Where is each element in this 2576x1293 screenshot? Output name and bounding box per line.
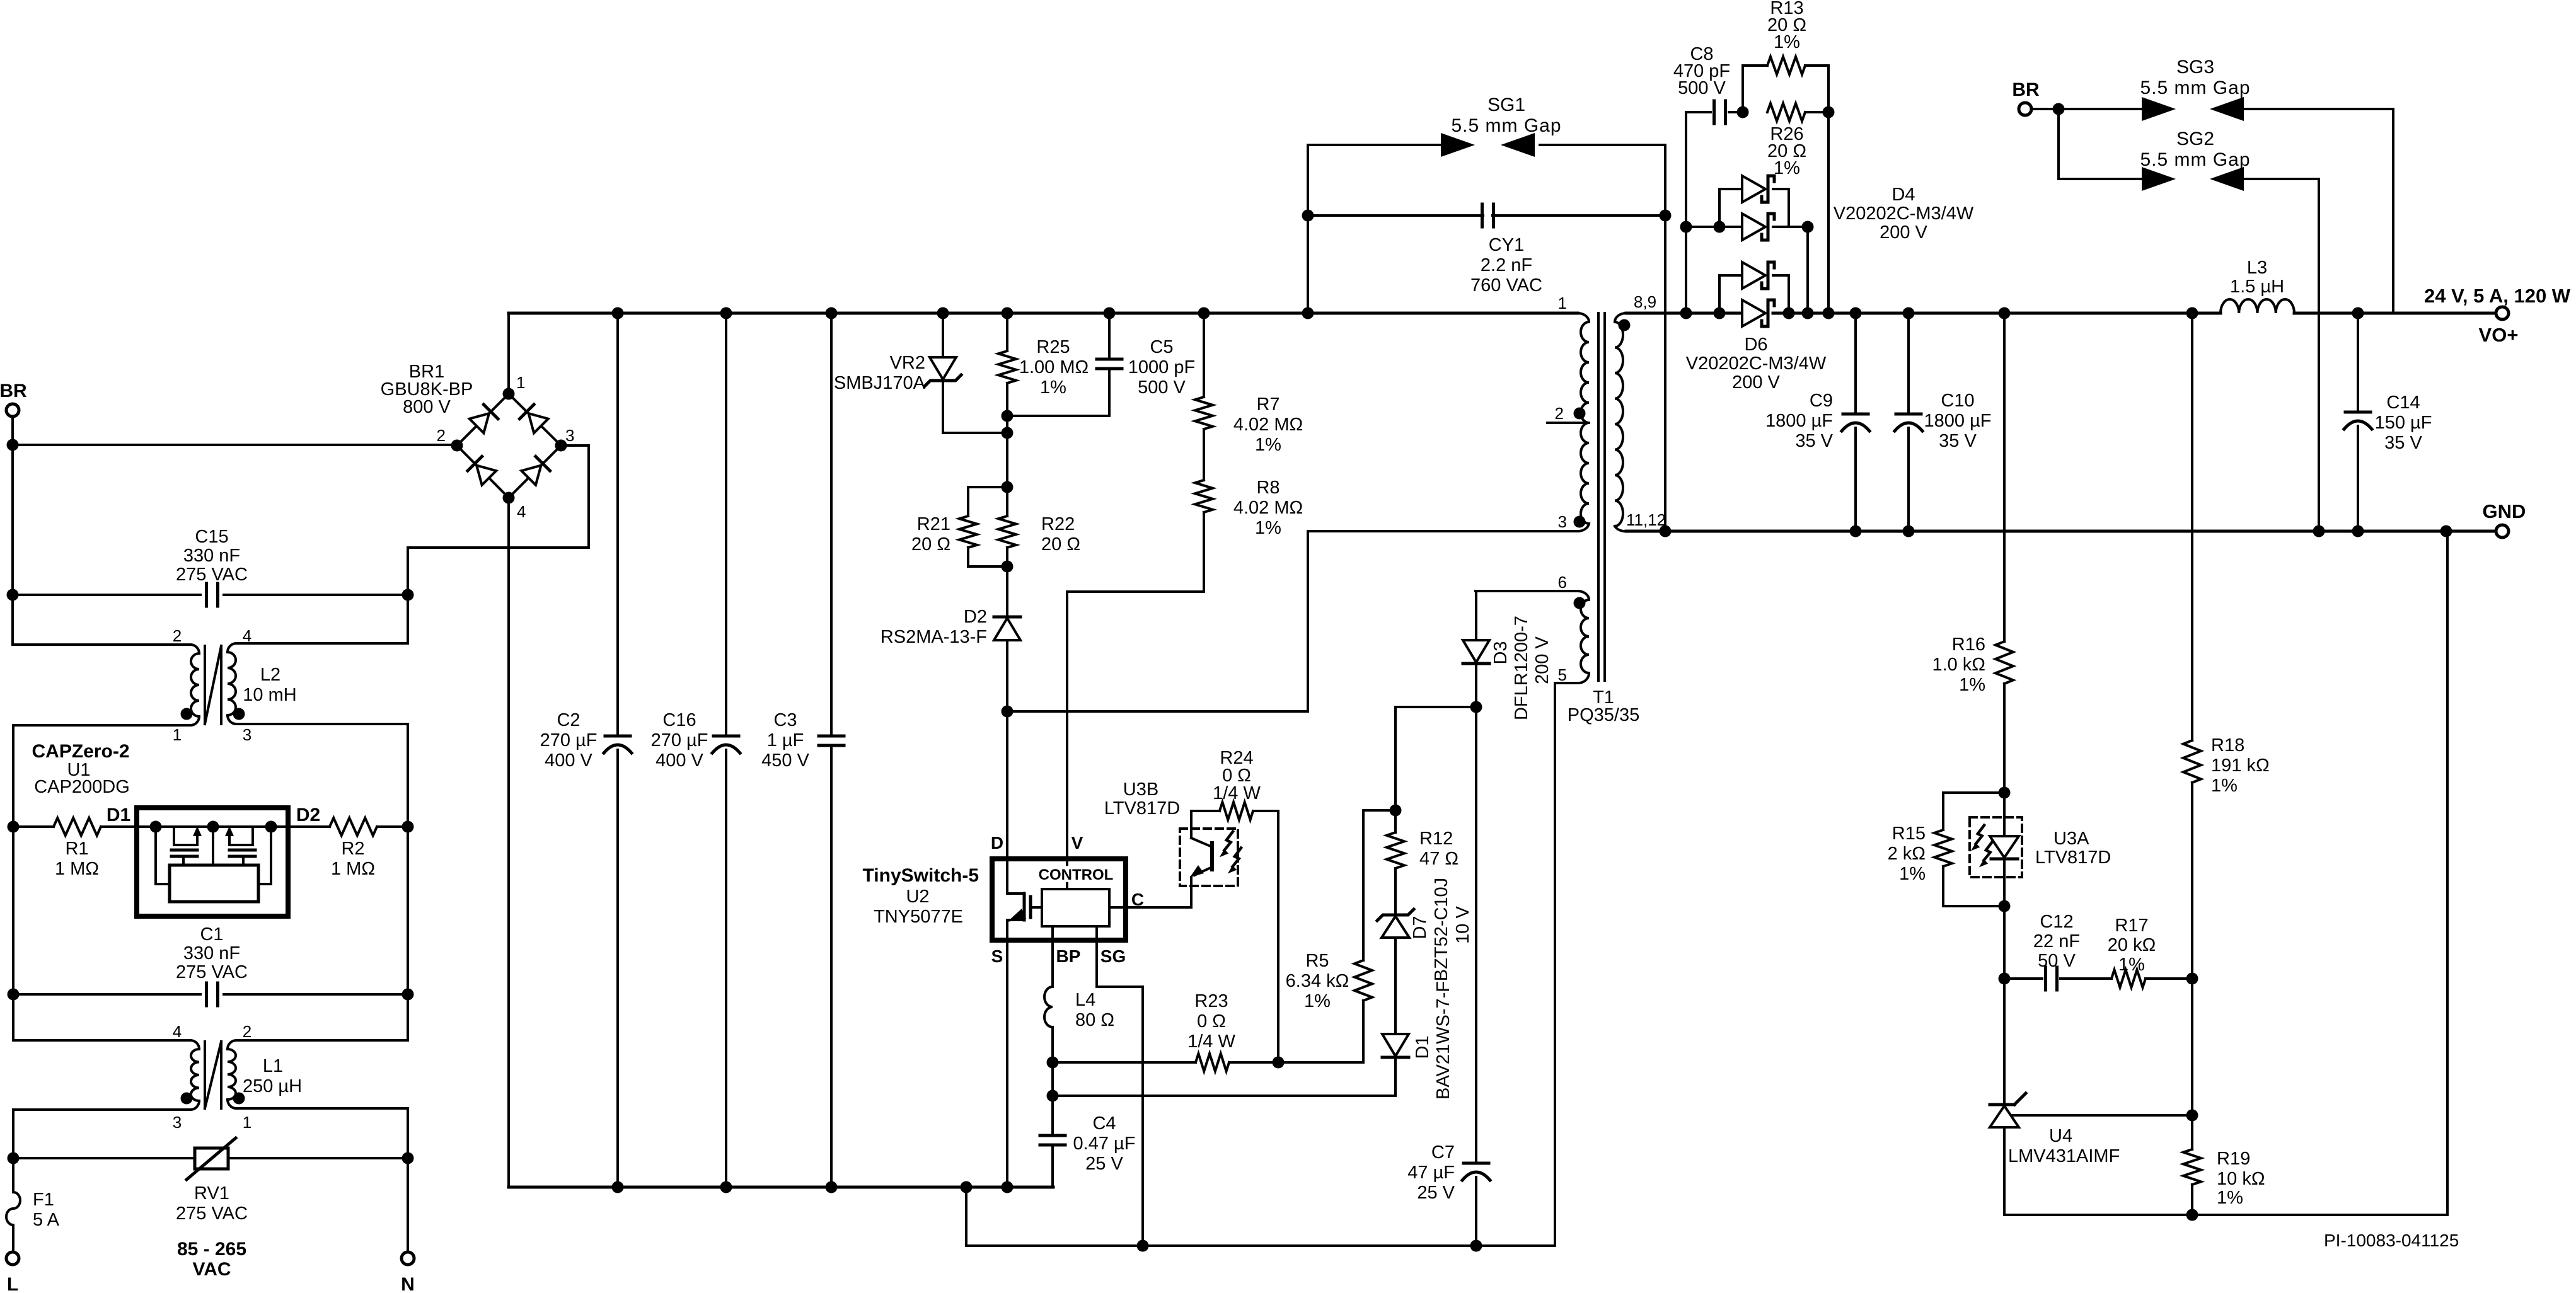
bridge rectifier BR1	[381, 362, 575, 521]
svg-text:V: V	[1071, 833, 1083, 853]
svg-text:760 VAC: 760 VAC	[1470, 275, 1542, 296]
svg-text:1: 1	[1558, 294, 1567, 313]
diode D3	[1463, 591, 1552, 720]
svg-text:R1: R1	[65, 839, 88, 859]
svg-text:C12: C12	[2040, 912, 2073, 932]
svg-text:500 V: 500 V	[1678, 78, 1726, 98]
terminal BR (secondary spark gap reference)	[2012, 79, 2040, 115]
svg-text:C16: C16	[662, 710, 696, 730]
svg-text:4: 4	[173, 1022, 182, 1041]
svg-text:R7: R7	[1256, 394, 1279, 415]
svg-text:C10: C10	[1941, 391, 1974, 411]
rectifier diode D6 (two parallel)	[1686, 262, 1827, 393]
svg-text:20 kΩ: 20 kΩ	[2108, 935, 2156, 955]
svg-text:200 V: 200 V	[1732, 372, 1780, 393]
svg-text:C9: C9	[1810, 391, 1833, 411]
wire: BR1 pin4 down to primary ground rail	[507, 498, 510, 1187]
svg-text:R12: R12	[1419, 829, 1453, 849]
transformer T1 core	[1598, 313, 1605, 681]
wire: U2 C pin to U3B emitter	[1109, 877, 1191, 907]
svg-text:TinySwitch-5: TinySwitch-5	[863, 865, 979, 886]
svg-text:1000 pF: 1000 pF	[1128, 357, 1195, 377]
resistor R21 (parallel with R22)	[911, 487, 1007, 566]
svg-text:1%: 1%	[1304, 991, 1331, 1011]
resistor R7	[1195, 313, 1303, 455]
varistor RV1	[13, 1138, 408, 1224]
resistor R15 (parallel with U3A LED)	[1888, 793, 2011, 912]
transformer T1 primary winding	[1547, 294, 1589, 531]
wire: C1 left column down to L1 pin 4	[13, 994, 190, 1040]
svg-text:1800 µF: 1800 µF	[1924, 411, 1992, 431]
svg-text:1.00 MΩ: 1.00 MΩ	[1019, 357, 1089, 377]
svg-text:1: 1	[243, 1113, 251, 1132]
svg-text:1/4 W: 1/4 W	[1187, 1032, 1235, 1052]
svg-text:5 A: 5 A	[33, 1210, 60, 1230]
terminal BR (input bulk rail test point)	[0, 381, 27, 417]
svg-text:3: 3	[565, 426, 574, 445]
svg-text:25 V: 25 V	[1417, 1183, 1455, 1203]
svg-text:BAV21WS-7-F: BAV21WS-7-F	[1433, 981, 1453, 1100]
svg-text:VR2: VR2	[890, 353, 925, 373]
IC U2 TNY5077E block	[992, 859, 1126, 940]
svg-text:250 µH: 250 µH	[243, 1076, 302, 1096]
capacitor C12	[2004, 912, 2080, 990]
svg-text:R22: R22	[1041, 514, 1075, 534]
resistor R24	[1191, 748, 1285, 1069]
wire: drain node to transformer pin 3	[1002, 531, 1578, 859]
ferrite bead L4 on BP pin	[1044, 926, 1114, 1062]
diode D1	[1053, 981, 1453, 1100]
IC U1 CAP200DG internal block	[137, 808, 288, 916]
svg-text:C4: C4	[1092, 1113, 1116, 1134]
svg-text:2: 2	[173, 626, 182, 645]
svg-text:50 V: 50 V	[2038, 951, 2076, 971]
svg-text:L4: L4	[1075, 990, 1095, 1010]
svg-text:R15: R15	[1892, 824, 1926, 844]
wire: primary signal return line	[966, 1187, 1555, 1252]
svg-text:4: 4	[243, 626, 251, 645]
spark gap SG2	[2059, 109, 2319, 531]
svg-text:3: 3	[243, 725, 251, 744]
wire: primary ground rail	[509, 1181, 1053, 1193]
svg-text:SG1: SG1	[1487, 95, 1525, 115]
svg-text:2.2 nF: 2.2 nF	[1481, 255, 1532, 275]
svg-text:1%: 1%	[1899, 864, 1926, 884]
wire: feedback ground return	[2004, 531, 2447, 1221]
capacitor C15	[13, 527, 408, 606]
svg-text:400 V: 400 V	[545, 750, 592, 771]
svg-text:D2: D2	[964, 607, 987, 627]
svg-text:R19: R19	[2217, 1149, 2250, 1169]
capacitor C7	[1407, 707, 1490, 1246]
svg-text:V20202C-M3/4W: V20202C-M3/4W	[1686, 353, 1827, 374]
BR1 corner dots	[503, 388, 515, 400]
svg-text:2 kΩ: 2 kΩ	[1888, 844, 1926, 864]
svg-text:330 nF: 330 nF	[183, 943, 240, 963]
svg-text:D1: D1	[1412, 1035, 1433, 1059]
wire: C1 right column down to L1 pin 2	[236, 994, 408, 1040]
svg-text:U3B: U3B	[1123, 779, 1158, 800]
svg-text:1800 µF: 1800 µF	[1765, 411, 1833, 431]
transformer T1 bias winding	[1476, 573, 1639, 1246]
svg-text:R8: R8	[1256, 478, 1279, 498]
svg-text:10 V: 10 V	[1453, 906, 1473, 944]
wire: secondary 8,9 rail with rectifier	[1626, 307, 1742, 319]
svg-text:R17: R17	[2115, 916, 2148, 936]
wire: R8 to U2 V pin	[1067, 512, 1204, 859]
transformer T1 secondary winding	[1615, 292, 1666, 531]
svg-text:V20202C-M3/4W: V20202C-M3/4W	[1834, 204, 1974, 224]
svg-text:5.5 mm Gap: 5.5 mm Gap	[1451, 115, 1561, 136]
snubber resistor R26	[1767, 103, 1835, 313]
svg-text:VAC: VAC	[192, 1259, 231, 1280]
svg-text:BP: BP	[1056, 946, 1081, 966]
resistor R16	[1932, 313, 2013, 793]
svg-text:6.34 kΩ: 6.34 kΩ	[1286, 971, 1349, 991]
svg-text:85 - 265: 85 - 265	[177, 1239, 246, 1260]
wire: BR1 pin3 loop down to C15/L2 right column	[402, 548, 414, 643]
svg-text:BZT52-C10J: BZT52-C10J	[1431, 878, 1452, 981]
svg-text:47 Ω: 47 Ω	[1419, 849, 1458, 869]
svg-text:1/4 W: 1/4 W	[1213, 783, 1261, 803]
svg-text:1%: 1%	[2118, 955, 2145, 975]
svg-text:LMV431AIMF: LMV431AIMF	[2008, 1146, 2120, 1166]
svg-text:C15: C15	[195, 527, 228, 547]
svg-text:1%: 1%	[2217, 1188, 2243, 1208]
svg-text:1.0 kΩ: 1.0 kΩ	[1932, 655, 1985, 675]
svg-text:C1: C1	[200, 924, 223, 945]
svg-text:SMBJ170A: SMBJ170A	[834, 373, 926, 393]
resistor R25	[998, 313, 1089, 416]
T1 primary phase dots	[1574, 408, 1586, 420]
svg-text:D7: D7	[1410, 916, 1430, 939]
svg-text:LTV817D: LTV817D	[2035, 848, 2111, 868]
fuse F1	[6, 1158, 60, 1252]
shunt reference U4 LMV431AIMF	[1990, 1093, 2192, 1215]
capacitor C1	[13, 924, 408, 1006]
spark gap SG1	[1308, 95, 1665, 215]
svg-text:L1: L1	[263, 1056, 283, 1076]
T1 pin 2 tap	[1547, 422, 1586, 424]
capacitor C10	[1895, 313, 1992, 537]
svg-text:U4: U4	[2049, 1126, 2072, 1146]
wire: bias chain from drain node line to D3/C7 node	[1390, 701, 1482, 817]
wire: L1 pin1 down to N column	[402, 1108, 414, 1164]
wire: VO+ rail	[1783, 307, 2497, 319]
svg-text:8,9: 8,9	[1634, 292, 1656, 311]
resistor R5	[1278, 810, 1395, 1062]
wire: BR node to BR1 pin 2	[13, 444, 456, 446]
capacitor C2	[540, 313, 632, 1187]
svg-text:R2: R2	[341, 839, 364, 859]
svg-text:SG2: SG2	[2176, 129, 2214, 149]
svg-text:1%: 1%	[1959, 675, 1985, 695]
spark gap SG3	[2031, 57, 2393, 313]
svg-text:1%: 1%	[2211, 776, 2238, 796]
svg-text:500 V: 500 V	[1138, 377, 1186, 398]
svg-text:800 V: 800 V	[403, 397, 451, 417]
svg-text:U3A: U3A	[2053, 829, 2089, 849]
svg-text:1 MΩ: 1 MΩ	[55, 859, 99, 879]
wire: U2 S pin to primary ground rail	[1006, 940, 1008, 1187]
svg-text:10 kΩ: 10 kΩ	[2217, 1169, 2265, 1189]
inductor L2 (common-mode choke)	[13, 626, 408, 744]
resistor R1	[13, 818, 137, 879]
svg-text:270 µF: 270 µF	[540, 730, 598, 750]
snubber capacitor C8	[1673, 44, 1749, 313]
svg-text:200 V: 200 V	[1532, 636, 1552, 684]
svg-text:C3: C3	[773, 710, 797, 730]
svg-text:35 V: 35 V	[1795, 431, 1833, 451]
svg-text:11,12: 11,12	[1626, 510, 1666, 529]
optocoupler U3B LTV817D (transistor side)	[1104, 779, 1241, 886]
svg-text:2: 2	[437, 426, 446, 445]
capacitor C3	[761, 313, 844, 1187]
svg-text:150 µF: 150 µF	[2375, 413, 2432, 433]
svg-text:270 µF: 270 µF	[651, 730, 708, 750]
svg-text:C14: C14	[2386, 393, 2420, 413]
terminal L (line input)	[6, 1252, 19, 1293]
capacitor C9	[1765, 313, 1869, 537]
inductor L3	[2221, 258, 2294, 313]
svg-text:1 µF: 1 µF	[767, 730, 804, 750]
resistor R18	[2183, 313, 2270, 979]
terminal GND	[2483, 500, 2526, 537]
resistor R17	[2060, 916, 2192, 987]
svg-text:PQ35/35: PQ35/35	[1568, 705, 1639, 725]
svg-text:C7: C7	[1431, 1142, 1455, 1163]
zener diode D7	[1377, 878, 1473, 1035]
svg-text:10 mH: 10 mH	[243, 685, 296, 705]
L1 phase dots	[181, 1093, 193, 1105]
capacitor C14	[2344, 313, 2432, 531]
svg-text:47 µF: 47 µF	[1407, 1163, 1455, 1183]
svg-text:D2: D2	[296, 805, 320, 825]
svg-text:4.02 MΩ: 4.02 MΩ	[1233, 498, 1303, 518]
svg-text:35 V: 35 V	[1939, 431, 1977, 451]
svg-text:275 VAC: 275 VAC	[176, 1204, 248, 1224]
svg-text:R23: R23	[1194, 991, 1228, 1011]
svg-text:S: S	[991, 946, 1003, 966]
L2 phase dots	[181, 708, 193, 720]
U2 pin name labels	[991, 833, 1144, 966]
svg-text:R5: R5	[1305, 951, 1329, 971]
input voltage label 85 - 265 VAC	[177, 1239, 246, 1280]
svg-text:SG: SG	[1100, 946, 1126, 966]
svg-text:R21: R21	[917, 514, 950, 534]
svg-text:25 V: 25 V	[1085, 1154, 1123, 1174]
wire: U2 SG pin return	[1097, 926, 1149, 1252]
svg-text:C2: C2	[557, 710, 580, 730]
svg-text:4.02 MΩ: 4.02 MΩ	[1233, 415, 1303, 435]
svg-text:2: 2	[243, 1022, 251, 1041]
svg-text:GND: GND	[2483, 500, 2526, 522]
svg-text:0 Ω: 0 Ω	[1197, 1011, 1226, 1032]
inductor L1 (common-mode choke)	[13, 1022, 408, 1132]
terminal VO+	[2479, 307, 2519, 346]
wire: secondary ground rail	[1626, 526, 2496, 537]
capacitor C16	[651, 313, 740, 1187]
wire: RV1 to N terminal	[407, 1158, 409, 1252]
svg-text:35 V: 35 V	[2384, 433, 2422, 453]
capacitor CY1	[1302, 204, 1672, 531]
TVS diode VR2	[834, 313, 1007, 433]
wire: right column L2 pin3 to C1	[402, 724, 414, 1001]
svg-text:1 MΩ: 1 MΩ	[331, 859, 375, 879]
resistor R23	[1053, 991, 1278, 1071]
svg-text:5.5 mm Gap: 5.5 mm Gap	[2140, 149, 2250, 170]
svg-text:N: N	[401, 1274, 415, 1293]
svg-text:RV1: RV1	[194, 1183, 229, 1204]
resistor R22	[998, 481, 1080, 573]
svg-text:L2: L2	[260, 665, 280, 685]
terminal N (neutral input)	[401, 1252, 415, 1293]
svg-text:275 VAC: 275 VAC	[176, 962, 248, 982]
IC U1 CAPZero-2 labels	[32, 741, 129, 797]
svg-text:330 nF: 330 nF	[183, 546, 240, 566]
svg-text:BR: BR	[2012, 79, 2040, 100]
svg-text:C5: C5	[1150, 337, 1173, 357]
svg-text:1%: 1%	[1040, 377, 1066, 398]
svg-text:1%: 1%	[1774, 158, 1800, 178]
svg-text:275 VAC: 275 VAC	[176, 565, 248, 585]
wire: BP node junctions and C4	[1047, 1057, 1059, 1136]
diode D2	[881, 566, 1020, 711]
svg-text:CAP200DG: CAP200DG	[34, 777, 130, 797]
svg-text:D6: D6	[1744, 335, 1767, 355]
wire: L2 pin1 down to R1/C1 left column	[8, 725, 20, 1001]
T1 secondary phase dot	[1619, 319, 1631, 331]
svg-text:1.5 µH: 1.5 µH	[2230, 277, 2284, 297]
resistor R8	[1195, 429, 1303, 538]
svg-text:R16: R16	[1952, 635, 1985, 655]
wire: BR terminal to L2 pin 2 column	[7, 417, 19, 645]
optocoupler U3A LTV817D (LED side)	[1970, 787, 2111, 907]
svg-text:BR: BR	[0, 381, 27, 401]
svg-text:4: 4	[517, 502, 526, 521]
svg-text:D1: D1	[107, 805, 130, 825]
resistor R19	[2183, 973, 2265, 1215]
svg-text:TNY5077E: TNY5077E	[874, 907, 963, 927]
svg-text:VO+: VO+	[2479, 324, 2519, 346]
svg-text:6: 6	[1558, 573, 1567, 592]
resistor R2	[288, 818, 408, 879]
T1 bias phase dot	[1574, 597, 1586, 609]
rectifier diode D4 (two parallel)	[1680, 176, 1974, 313]
svg-text:20 Ω: 20 Ω	[911, 534, 950, 555]
wire: U3A cathode column	[1999, 906, 2011, 1105]
svg-text:2: 2	[1555, 404, 1564, 423]
svg-text:1%: 1%	[1255, 435, 1281, 455]
svg-text:D: D	[991, 833, 1003, 853]
node: VR2/R25/C5 junction dots	[1002, 410, 1014, 488]
svg-text:3: 3	[173, 1113, 182, 1132]
resistor R12	[1387, 810, 1458, 914]
svg-text:191 kΩ: 191 kΩ	[2211, 756, 2270, 776]
svg-text:400 V: 400 V	[656, 750, 703, 771]
svg-text:PI-10083-041125: PI-10083-041125	[2324, 1231, 2459, 1250]
capacitor C5	[1007, 313, 1195, 416]
svg-text:1%: 1%	[1255, 518, 1281, 538]
svg-text:LTV817D: LTV817D	[1104, 798, 1180, 819]
svg-text:5.5 mm Gap: 5.5 mm Gap	[2140, 78, 2250, 98]
svg-text:1: 1	[516, 373, 525, 392]
svg-text:U2: U2	[906, 887, 929, 907]
svg-text:0.47 µF: 0.47 µF	[1073, 1134, 1136, 1154]
svg-text:L3: L3	[2247, 258, 2267, 278]
svg-text:24 V, 5 A, 120 W: 24 V, 5 A, 120 W	[2424, 285, 2571, 307]
svg-text:D3: D3	[1491, 641, 1511, 664]
svg-text:1: 1	[173, 725, 182, 744]
svg-text:1%: 1%	[1774, 32, 1800, 52]
svg-text:3: 3	[1558, 512, 1567, 531]
svg-text:D4: D4	[1892, 185, 1915, 205]
wire: BR1 pin3 loop to right column	[408, 445, 589, 548]
svg-text:L: L	[7, 1274, 18, 1293]
svg-text:22 nF: 22 nF	[2033, 931, 2080, 951]
svg-text:R18: R18	[2211, 735, 2244, 756]
svg-text:DFLR1200-7: DFLR1200-7	[1511, 616, 1532, 720]
wire: L1 pin3 down to fuse column	[8, 1110, 20, 1164]
IC U2 TinySwitch-5 labels	[863, 865, 979, 927]
wire: BR1 pin1 up to HV+ rail	[507, 313, 510, 394]
svg-text:RS2MA-13-F: RS2MA-13-F	[881, 627, 987, 647]
svg-text:F1: F1	[33, 1190, 54, 1210]
capacitor C4	[1040, 1113, 1135, 1187]
svg-text:200 V: 200 V	[1880, 222, 1927, 243]
svg-text:CONTROL: CONTROL	[1039, 866, 1114, 883]
svg-text:450 V: 450 V	[761, 750, 809, 771]
svg-text:CAPZero-2: CAPZero-2	[32, 741, 129, 762]
svg-text:R25: R25	[1036, 337, 1070, 357]
wire: HV+ rail	[509, 307, 1578, 319]
svg-text:SG3: SG3	[2176, 57, 2214, 78]
svg-text:CY1: CY1	[1489, 235, 1524, 255]
snubber resistor R13	[1743, 0, 1828, 112]
svg-text:20 Ω: 20 Ω	[1041, 534, 1080, 555]
svg-text:5: 5	[1558, 665, 1567, 684]
svg-text:80 Ω: 80 Ω	[1075, 1010, 1114, 1030]
